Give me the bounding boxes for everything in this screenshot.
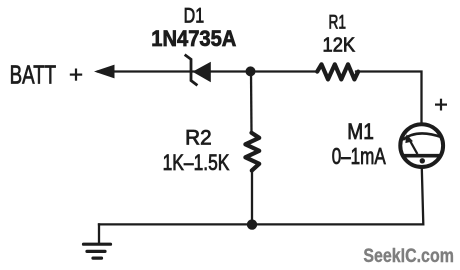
resistor R1 zigzag bbox=[317, 64, 358, 79]
wire: center vertical from top node to R2 bbox=[250, 72, 253, 134]
svg-text:M1: M1 bbox=[347, 119, 374, 144]
meter M1 needle arrowhead bbox=[405, 134, 413, 143]
wire: ground stub bbox=[98, 224, 100, 243]
svg-text:R2: R2 bbox=[185, 126, 212, 149]
svg-text:1K–1.5K: 1K–1.5K bbox=[163, 150, 230, 175]
svg-text:1N4735A: 1N4735A bbox=[151, 26, 236, 51]
meter M1 needle bbox=[409, 139, 417, 154]
node A: junction dot top (zener/R1/R2) bbox=[246, 66, 256, 76]
resistor R2 zigzag bbox=[245, 133, 259, 171]
wire: meter bottom to lower rail bbox=[99, 168, 423, 224]
svg-text:SeekIC.com: SeekIC.com bbox=[363, 246, 454, 267]
diode D1 zener bar bbox=[186, 56, 197, 85]
battery plus sign bbox=[70, 69, 82, 81]
meter M1 bottom chord bbox=[402, 154, 442, 158]
wire: top rail from R1 to right corner, down to meter bbox=[356, 72, 422, 124]
wire: top rail from arrow to zener bbox=[98, 70, 190, 72]
svg-text:R1: R1 bbox=[328, 13, 346, 34]
diode D1 triangle bbox=[193, 62, 211, 82]
meter M1 pivot dot bbox=[420, 158, 425, 163]
svg-text:0–1mA: 0–1mA bbox=[332, 143, 386, 169]
svg-text:D1: D1 bbox=[184, 5, 205, 28]
meter M1 circle bbox=[400, 124, 443, 167]
svg-text:12K: 12K bbox=[323, 34, 356, 56]
wire: top rail from diode to R1 bbox=[193, 70, 318, 72]
wire: R2 to bottom node bbox=[251, 171, 253, 225]
ground bbox=[84, 244, 111, 258]
meter plus terminal sign bbox=[435, 99, 447, 111]
node B: junction dot bottom (R2/ground rail) bbox=[247, 219, 257, 229]
svg-text:BATT: BATT bbox=[10, 60, 57, 90]
meter M1 scale arc bbox=[403, 133, 442, 139]
BATT arrowhead bbox=[94, 65, 115, 79]
